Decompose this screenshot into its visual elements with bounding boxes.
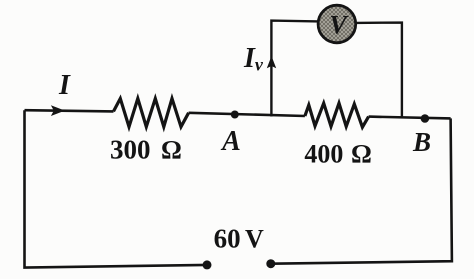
svg-text:B: B [412, 127, 431, 157]
svg-text:Ω: Ω [161, 136, 182, 165]
svg-text:V: V [245, 225, 264, 254]
svg-text:A: A [220, 126, 241, 157]
svg-text:300: 300 [110, 135, 151, 165]
svg-text:60: 60 [214, 224, 241, 254]
svg-text:400: 400 [304, 140, 343, 169]
svg-text:I: I [58, 70, 71, 101]
svg-text:Ω: Ω [351, 140, 372, 169]
svg-text:V: V [329, 11, 349, 40]
